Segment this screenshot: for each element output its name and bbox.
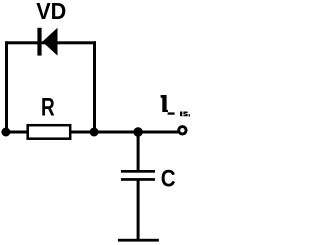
wire: top horizontal of diode loop bbox=[5, 41, 96, 44]
node: right junction dot bbox=[90, 128, 99, 137]
svg-text:VD: VD bbox=[36, 0, 66, 24]
svg-text:R: R bbox=[41, 93, 55, 121]
wire: left vertical of diode loop bbox=[5, 41, 8, 133]
resistor R body bbox=[28, 125, 70, 139]
node: capacitor branch junction dot bbox=[133, 127, 142, 136]
output terminal circle bbox=[179, 127, 186, 134]
svg-text:C: C bbox=[161, 165, 176, 192]
wire: horizontal node row (left node to output terminal) bbox=[4, 131, 178, 134]
wire: capacitor branch upper vertical bbox=[137, 131, 140, 171]
capacitor C bottom plate bbox=[121, 178, 155, 181]
diode VD cathode bar bbox=[37, 28, 41, 56]
wire: capacitor branch lower vertical bbox=[137, 180, 140, 240]
wire: right vertical of diode loop bbox=[93, 41, 96, 133]
label U (output voltage, clipped glyph) stem bbox=[161, 95, 168, 112]
node: left junction dot bbox=[1, 128, 10, 137]
label U subscript (clipped at edge) bbox=[180, 112, 190, 117]
diode VD triangle (anode, pointing left) bbox=[42, 28, 57, 56]
label U bottom dash bbox=[168, 112, 175, 114]
ground bar bbox=[118, 239, 159, 242]
capacitor C top plate bbox=[121, 170, 155, 173]
